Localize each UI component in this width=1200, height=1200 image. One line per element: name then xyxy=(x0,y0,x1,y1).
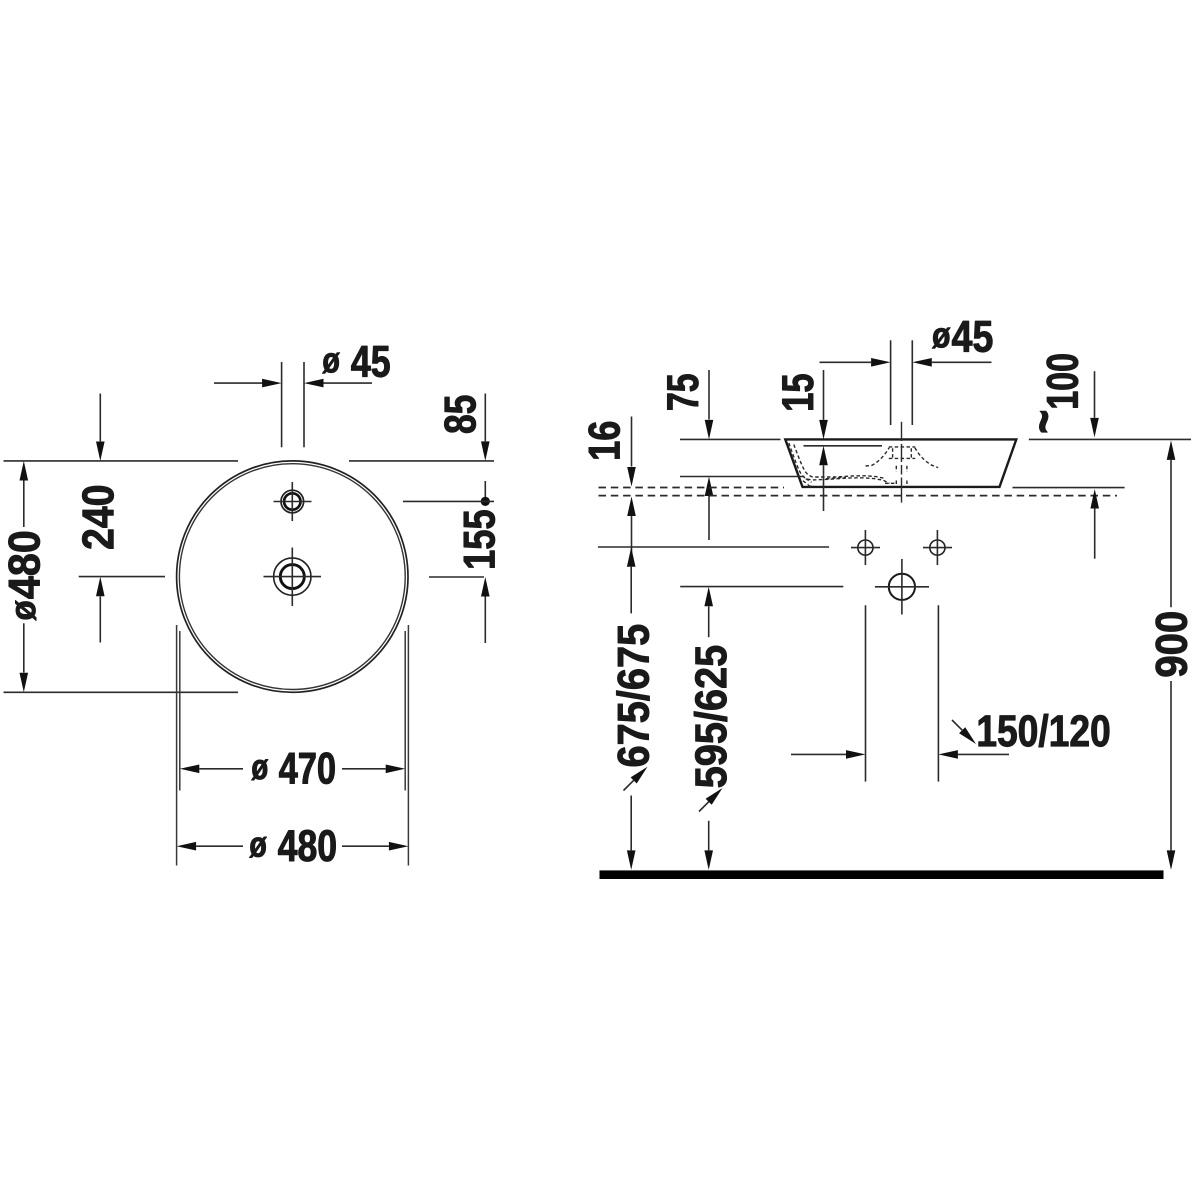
dimension ø45 (side) arrows xyxy=(820,358,992,367)
dimension 595/625 top arrow xyxy=(704,587,713,637)
drain hole (plan view) xyxy=(274,558,311,595)
dimension ~100 top arrow xyxy=(1090,371,1099,437)
dimension 900 top arrow xyxy=(1167,440,1176,607)
dimension 15 bottom arrow xyxy=(819,446,828,511)
mounting hole left (side view) xyxy=(851,530,880,565)
label ~100 (rotated) xyxy=(1039,354,1078,432)
drain pipe circle (side view) xyxy=(875,559,929,615)
dimension ø480 left arrows xyxy=(20,461,29,692)
dimension ø45 (side) extension lines xyxy=(891,340,913,425)
basin inner rim circle (plan view) ø470 xyxy=(179,464,405,690)
dimension 75 top arrow xyxy=(705,370,714,439)
dimension 85 arrow (top, down to tangent) xyxy=(481,394,490,461)
150/120 alternate arrow (SE) xyxy=(952,720,976,744)
label 675/675 (rotated) xyxy=(616,625,649,766)
dimension ø45 (plan) arrows and line xyxy=(214,379,372,388)
vertical centerline through drain (side view) xyxy=(901,422,903,503)
dimension 900 bottom arrow xyxy=(1167,681,1176,870)
label ø480 (rotated, far left) xyxy=(8,532,39,621)
drain crosshair xyxy=(264,548,322,607)
label 900 (rotated) xyxy=(1156,612,1187,676)
150/120 extension lines xyxy=(866,605,939,781)
dot terminator at faucet line xyxy=(481,481,490,506)
drain dome hidden lines (dashed) xyxy=(866,447,939,486)
faucet hole crosshair xyxy=(274,482,312,521)
basin trapezoid outline (side view) xyxy=(785,439,1016,487)
dimension 16 top arrow xyxy=(627,417,636,487)
top tangent extension line xyxy=(4,460,495,462)
dimension 675/675 bottom arrow xyxy=(627,796,636,870)
faucet hole (plan view) xyxy=(281,490,304,513)
basin top right extension line xyxy=(1029,438,1191,440)
label 150/120 xyxy=(979,714,1109,747)
basin top left extension line xyxy=(680,438,781,440)
label 16 (rotated) xyxy=(588,422,619,459)
countertop solid line right xyxy=(1013,487,1125,489)
dimension ø480 bottom row xyxy=(177,842,409,851)
dimension 155 arrow (bottom, up to drain line) xyxy=(481,577,490,643)
countertop dashed line upper xyxy=(599,487,785,489)
drain centerline right extension xyxy=(429,576,484,578)
mounting holes centerline left extension xyxy=(598,546,829,548)
675/675 alternate arrow (NE) xyxy=(624,767,648,791)
mounting surface line (75 reference) xyxy=(680,476,805,478)
ø470 extension lines xyxy=(180,631,405,791)
label 240 (rotated) xyxy=(82,486,113,548)
basin inner rim line xyxy=(804,445,883,447)
label ø 470 xyxy=(251,752,334,783)
dimension ø470 row xyxy=(180,765,405,774)
dimension ~100 bottom arrow xyxy=(1090,489,1099,559)
label ø 480 xyxy=(249,830,335,861)
faucet centerline right extension xyxy=(403,500,494,502)
drain pipe centerline left extension xyxy=(680,586,843,588)
label ø 45 (plan) xyxy=(322,346,389,377)
label 155 (rotated) xyxy=(464,510,495,567)
ø480 extension lines xyxy=(177,625,409,866)
label 85 (rotated) xyxy=(444,396,475,433)
dimension 150/120 arrows xyxy=(791,750,1009,759)
basin outer circle (plan view) ø480 xyxy=(177,461,408,692)
mounting hole right (side view) xyxy=(923,530,952,565)
dimension ø45 (plan) extension lines xyxy=(282,362,304,447)
dimension 675/675 top arrow xyxy=(627,547,636,613)
dimension 16 bottom arrow xyxy=(627,497,636,561)
interior bowl hidden lines (dashed) xyxy=(789,443,890,486)
bottom tangent extension line xyxy=(4,691,239,693)
label 15 (rotated) xyxy=(782,374,813,409)
label ø45 (side) xyxy=(932,321,992,352)
countertop dashed line lower xyxy=(599,495,1118,497)
595/625 alternate arrow (NE) xyxy=(699,788,723,812)
floor line xyxy=(600,870,1164,879)
dimension 15 top arrow xyxy=(819,370,828,439)
dimension 595/625 bottom arrow xyxy=(704,821,713,870)
dimension 75 bottom arrow xyxy=(705,477,714,541)
dimension 240 top arrow xyxy=(96,394,105,462)
label 595/625 (rotated) xyxy=(694,646,727,787)
label 75 (rotated) xyxy=(667,374,698,409)
drain centerline left extension xyxy=(79,576,165,578)
dimension 240 bottom arrow xyxy=(96,577,105,643)
